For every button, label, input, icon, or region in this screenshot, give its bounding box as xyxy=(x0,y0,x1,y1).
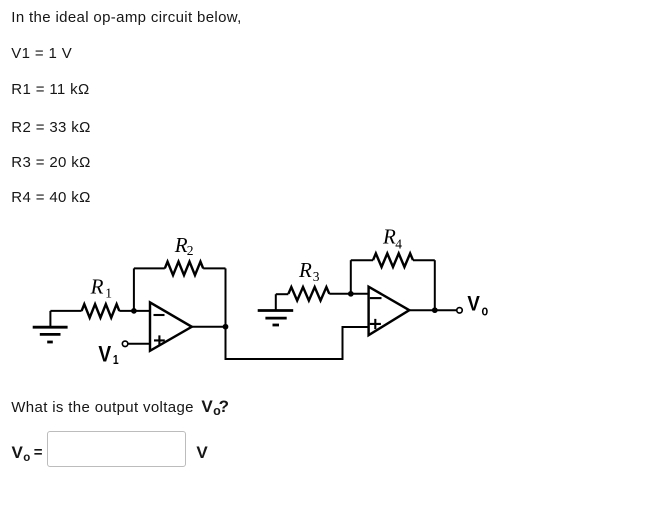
svg-text:V: V xyxy=(467,293,480,316)
wire node C up to R4 xyxy=(350,260,352,294)
wire R1 to op-amp U1 inverting input xyxy=(119,310,150,312)
node D (U2 output junction) xyxy=(432,307,438,313)
svg-text:o: o xyxy=(482,302,489,319)
node B (U1 output junction) xyxy=(223,324,229,330)
input terminal V1 (open circle) xyxy=(122,341,128,347)
svg-text:3: 3 xyxy=(313,269,320,284)
ground G2 (at R3 input) xyxy=(258,294,294,325)
equals sign xyxy=(34,445,43,460)
svg-text:V: V xyxy=(98,342,111,367)
wire R4 to right vertical xyxy=(413,259,435,261)
resistor R2 xyxy=(165,262,203,276)
wire node A up to R2 xyxy=(133,268,135,311)
wire R4 right vertical down to U2 output xyxy=(434,260,436,310)
svg-text:1: 1 xyxy=(105,286,112,301)
resistor R1 xyxy=(82,304,120,318)
op-amp U2 xyxy=(369,287,410,336)
wire U1 output xyxy=(192,326,226,328)
ground G1 (left, at R1 input) xyxy=(33,311,68,342)
op-amp U1 xyxy=(150,302,192,350)
wire U1 output down and across to U2 non-inverting input xyxy=(226,327,369,359)
svg-text:2: 2 xyxy=(187,243,194,258)
wire U2 output to Vo terminal xyxy=(409,309,456,311)
wire R2 to right vertical xyxy=(203,267,225,269)
wire top rail left to R2 xyxy=(134,267,165,269)
svg-text:R: R xyxy=(298,258,312,282)
R3 value line xyxy=(11,155,90,170)
wire ground G1 to R1 xyxy=(50,310,81,312)
svg-text:R: R xyxy=(382,225,396,249)
answer row: Vo = [input] V xyxy=(12,445,31,463)
svg-text:4: 4 xyxy=(395,236,402,251)
wire top rail left to R4 xyxy=(351,259,373,261)
question line xyxy=(11,399,229,416)
resistor R3 xyxy=(288,287,329,301)
wire V1 terminal to U1 non-inverting input xyxy=(128,343,150,345)
wire R2 right vertical down to U1 output xyxy=(225,268,227,326)
wire ground G2 to R3 xyxy=(276,293,289,295)
answer input box xyxy=(47,431,185,468)
unit V xyxy=(196,445,208,461)
svg-text:R: R xyxy=(90,275,104,299)
V1 value line xyxy=(11,46,72,61)
svg-text:R: R xyxy=(174,233,188,257)
R2 value line xyxy=(11,120,90,135)
node C (junction R3/R4/U2-) xyxy=(348,291,354,297)
node A (junction R1/R2/U1-) xyxy=(131,308,137,314)
R1 value line xyxy=(11,82,89,97)
svg-text:1: 1 xyxy=(113,353,119,367)
R4 value line xyxy=(11,190,90,205)
problem statement line 1 xyxy=(11,10,241,25)
resistor R4 xyxy=(373,253,413,267)
wire R3 to op-amp U2 inverting input xyxy=(329,293,368,295)
output terminal Vo (open circle) xyxy=(457,308,463,314)
